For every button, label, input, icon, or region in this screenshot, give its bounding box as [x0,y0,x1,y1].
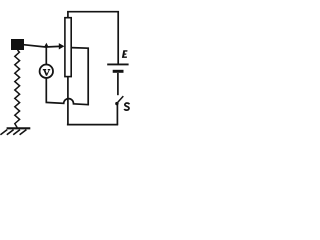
switch S blade [118,96,124,102]
battery label E [122,50,128,58]
resistor zigzag to ground [15,50,20,128]
wire pot bottom lead down to rail [67,76,69,124]
ground bar [7,127,31,129]
wire battery bottom to switch top [117,73,119,95]
battery E short plate [113,70,124,73]
wire from square to slider arrow [24,45,60,47]
potentiometer slider arrow [59,43,65,49]
battery E long plate [107,63,128,65]
potentiometer R1 body [65,18,71,77]
wire junction to voltmeter [45,46,47,64]
voltmeter label V [43,69,50,76]
switch label S [124,103,129,110]
ground hatches [0,130,26,135]
wire pot top lead to top rail to battery [68,12,118,64]
wire riser from hop wire up to pot tap [71,48,88,106]
photoresistor (black square sensor) [11,39,24,50]
voltmeter U1 circle [40,65,53,78]
wire bottom rail [67,124,118,126]
wire switch bottom to rail [116,105,118,125]
wire voltmeter bottom down and right with hop over pot lead [46,78,90,105]
switch S pivot circle [115,102,118,105]
node junction blob [44,43,48,47]
